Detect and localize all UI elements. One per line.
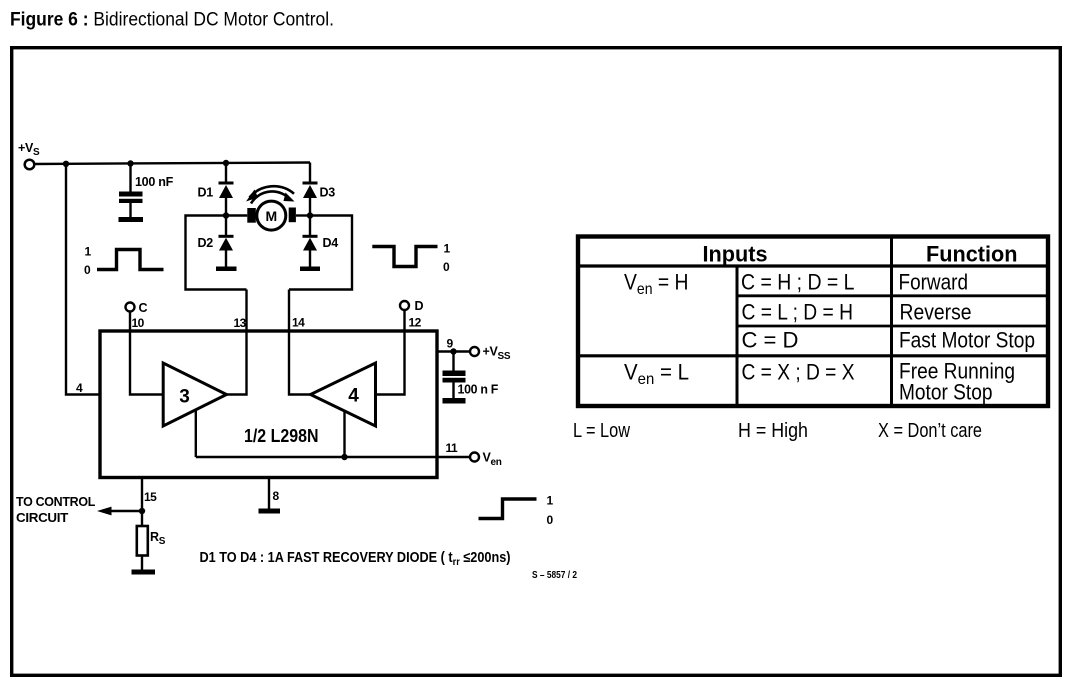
wire pin 9 bbox=[437, 350, 470, 352]
text to control circuit bbox=[16, 495, 96, 525]
note L = Low bbox=[573, 420, 630, 442]
svg-text:Fast Motor Stop: Fast Motor Stop bbox=[899, 328, 1035, 353]
pin 11 label bbox=[446, 441, 459, 455]
table cell Ven = L bbox=[624, 360, 689, 389]
svg-text:1: 1 bbox=[444, 242, 451, 256]
table cell C=X D=X bbox=[742, 360, 855, 385]
wire D2 to ground bbox=[225, 251, 227, 267]
svg-text:D2: D2 bbox=[198, 236, 214, 250]
svg-text:1: 1 bbox=[85, 245, 92, 259]
wire bridge left loop bbox=[186, 216, 247, 290]
svg-text:L = Low: L = Low bbox=[573, 420, 630, 442]
table cell Free Running Motor Stop bbox=[899, 359, 1015, 405]
wire motor right terminal to node bbox=[296, 214, 310, 216]
terminal +Vss bbox=[470, 345, 511, 363]
wire enable line bbox=[196, 456, 470, 458]
terminal Ven bbox=[470, 451, 502, 469]
node motor left bbox=[223, 212, 229, 218]
svg-text:TO CONTROL: TO CONTROL bbox=[16, 495, 96, 509]
svg-text:100 nF: 100 nF bbox=[135, 175, 174, 189]
terminal D bbox=[400, 299, 424, 313]
op-amp 4 bbox=[311, 363, 376, 426]
svg-text:M: M bbox=[265, 208, 277, 224]
text figure code S-5857/2 bbox=[532, 569, 577, 581]
diode D2 bbox=[198, 235, 234, 251]
note H = High bbox=[738, 420, 808, 442]
resistor RS bbox=[137, 526, 166, 556]
svg-text:D: D bbox=[415, 299, 424, 313]
svg-text:Function: Function bbox=[926, 242, 1018, 267]
pin 15 label bbox=[144, 490, 157, 504]
table cell Fast Motor Stop bbox=[899, 328, 1035, 353]
wire cap C1 feed bbox=[129, 164, 131, 193]
waveform Ven step bbox=[479, 494, 554, 528]
svg-text:X = Don’t care: X = Don’t care bbox=[878, 420, 982, 442]
wire D to amp 4 input bbox=[376, 310, 405, 395]
svg-text:CIRCUIT: CIRCUIT bbox=[16, 511, 69, 525]
pin 8 label bbox=[273, 489, 280, 503]
node junction top rail at x=130.5 bbox=[127, 160, 133, 166]
svg-text:D1 TO D4 : 1A FAST RECOVERY D: D1 TO D4 : 1A FAST RECOVERY DIODE ( trr … bbox=[200, 550, 511, 568]
svg-text:9: 9 bbox=[447, 337, 454, 351]
svg-text:Motor Stop: Motor Stop bbox=[899, 380, 993, 405]
node motor right bbox=[307, 212, 313, 218]
svg-text:3: 3 bbox=[179, 387, 190, 408]
table cell Reverse bbox=[900, 300, 972, 325]
svg-text:C = D: C = D bbox=[742, 328, 799, 353]
wire arrow to control circuit bbox=[97, 507, 142, 516]
ground pin 8 bbox=[259, 509, 281, 514]
wire D4 to ground bbox=[309, 251, 311, 267]
svg-text:H = High: H = High bbox=[738, 420, 808, 442]
wire node to D2 bbox=[225, 216, 227, 236]
wire D1 to node bbox=[225, 198, 227, 216]
diode D1 bbox=[198, 182, 234, 200]
diode D3 bbox=[303, 182, 336, 200]
pin 12 label bbox=[409, 316, 422, 330]
wire node to motor left terminal bbox=[226, 214, 247, 216]
rotation arrow ccw bbox=[246, 186, 294, 201]
title bbox=[10, 10, 334, 31]
svg-text:15: 15 bbox=[144, 490, 157, 504]
ground under D2 bbox=[216, 267, 237, 272]
capacitor C2 100nF bbox=[443, 371, 499, 399]
pin 13 label bbox=[234, 316, 247, 330]
node junction top rail at x=66 bbox=[63, 161, 69, 167]
wire left vertical to pin 4 bbox=[66, 164, 100, 395]
ground under RS bbox=[132, 570, 156, 575]
svg-text:8: 8 bbox=[273, 489, 280, 503]
svg-text:Inputs: Inputs bbox=[703, 242, 768, 267]
wire amp 4 enable tap bbox=[343, 410, 345, 457]
node pin 9 bbox=[450, 348, 456, 354]
wire pin 8 bbox=[268, 478, 270, 510]
note diode recovery text bbox=[200, 550, 511, 568]
pin 14 label bbox=[292, 316, 305, 330]
node enable junction bbox=[341, 454, 347, 460]
svg-text:14: 14 bbox=[292, 316, 305, 330]
IC U1 1/2 L298N box bbox=[100, 331, 437, 478]
svg-text:C: C bbox=[139, 301, 148, 315]
ground under C1 bbox=[119, 217, 144, 222]
svg-text:D4: D4 bbox=[323, 236, 339, 250]
wire pin 13 to amp 3 output bbox=[227, 290, 247, 395]
note X = Don't care bbox=[878, 420, 982, 442]
table cell C=H D=L bbox=[741, 270, 855, 295]
rotation arrow cw bbox=[251, 191, 295, 203]
svg-text:100 n F: 100 n F bbox=[458, 383, 499, 397]
wire bridge right loop bbox=[289, 216, 352, 290]
wire top rail bbox=[35, 163, 311, 165]
terminal C bbox=[126, 301, 148, 315]
diode D4 bbox=[303, 235, 339, 251]
svg-text:Ven = H: Ven = H bbox=[624, 270, 689, 299]
table header Inputs bbox=[703, 242, 768, 267]
pin 9 label bbox=[447, 337, 454, 351]
svg-text:Figure 6 : Bidirectional DC Mo: Figure 6 : Bidirectional DC Motor Contro… bbox=[10, 10, 334, 31]
wire amp 3 enable tap bbox=[195, 410, 197, 457]
wire D1 feed bbox=[225, 163, 227, 182]
wire pin 14 to amp 4 output bbox=[289, 290, 311, 395]
svg-text:1: 1 bbox=[547, 494, 554, 508]
wire pin 15 bbox=[141, 478, 143, 527]
table cell C=D bbox=[742, 328, 799, 353]
svg-text:11: 11 bbox=[446, 441, 459, 455]
waveform C input pulse bbox=[84, 245, 164, 278]
svg-text:Forward: Forward bbox=[899, 270, 969, 295]
wire cap C2 feed bbox=[452, 352, 454, 372]
svg-text:13: 13 bbox=[234, 316, 247, 330]
svg-text:1/2 L298N: 1/2 L298N bbox=[244, 426, 319, 446]
svg-text:Ven = L: Ven = L bbox=[624, 360, 689, 389]
svg-text:S – 5857 / 2: S – 5857 / 2 bbox=[532, 569, 577, 581]
op-amp 3 bbox=[163, 363, 226, 426]
wire node to D4 bbox=[309, 216, 311, 236]
svg-text:4: 4 bbox=[76, 381, 83, 395]
svg-text:10: 10 bbox=[132, 316, 145, 330]
wire RS to ground bbox=[141, 556, 143, 570]
table header Function bbox=[926, 242, 1018, 267]
node pin 15 bbox=[139, 508, 145, 514]
motor M bbox=[247, 201, 296, 230]
truth table grid bbox=[576, 236, 1049, 406]
table cell Ven = H bbox=[624, 270, 689, 299]
wire D3 to node bbox=[309, 198, 311, 216]
waveform D input inverted pulse bbox=[372, 242, 450, 275]
svg-text:0: 0 bbox=[443, 260, 450, 274]
svg-text:C = X ; D = X: C = X ; D = X bbox=[742, 360, 855, 385]
ground under D4 bbox=[300, 267, 320, 272]
svg-text:D1: D1 bbox=[198, 186, 214, 200]
pin 4 label bbox=[76, 381, 83, 395]
svg-text:0: 0 bbox=[547, 513, 554, 527]
terminal +Vs bbox=[18, 141, 40, 169]
wire C to amp 3 input bbox=[130, 312, 163, 395]
wire top rail corner to D3 bbox=[309, 163, 311, 183]
svg-text:C = L ; D = H: C = L ; D = H bbox=[742, 300, 854, 325]
svg-text:C = H ; D = L: C = H ; D = L bbox=[741, 270, 855, 295]
table cell C=L D=H bbox=[742, 300, 854, 325]
pin 10 label bbox=[132, 316, 145, 330]
capacitor C1 100nF bbox=[119, 175, 174, 217]
svg-text:12: 12 bbox=[409, 316, 422, 330]
svg-text:Reverse: Reverse bbox=[900, 300, 972, 325]
svg-text:4: 4 bbox=[348, 386, 359, 407]
ground under C2 bbox=[443, 398, 466, 404]
svg-text:0: 0 bbox=[84, 263, 91, 277]
table cell Forward bbox=[899, 270, 969, 295]
svg-text:D3: D3 bbox=[320, 186, 336, 200]
node junction top rail at x=226 bbox=[223, 160, 229, 166]
